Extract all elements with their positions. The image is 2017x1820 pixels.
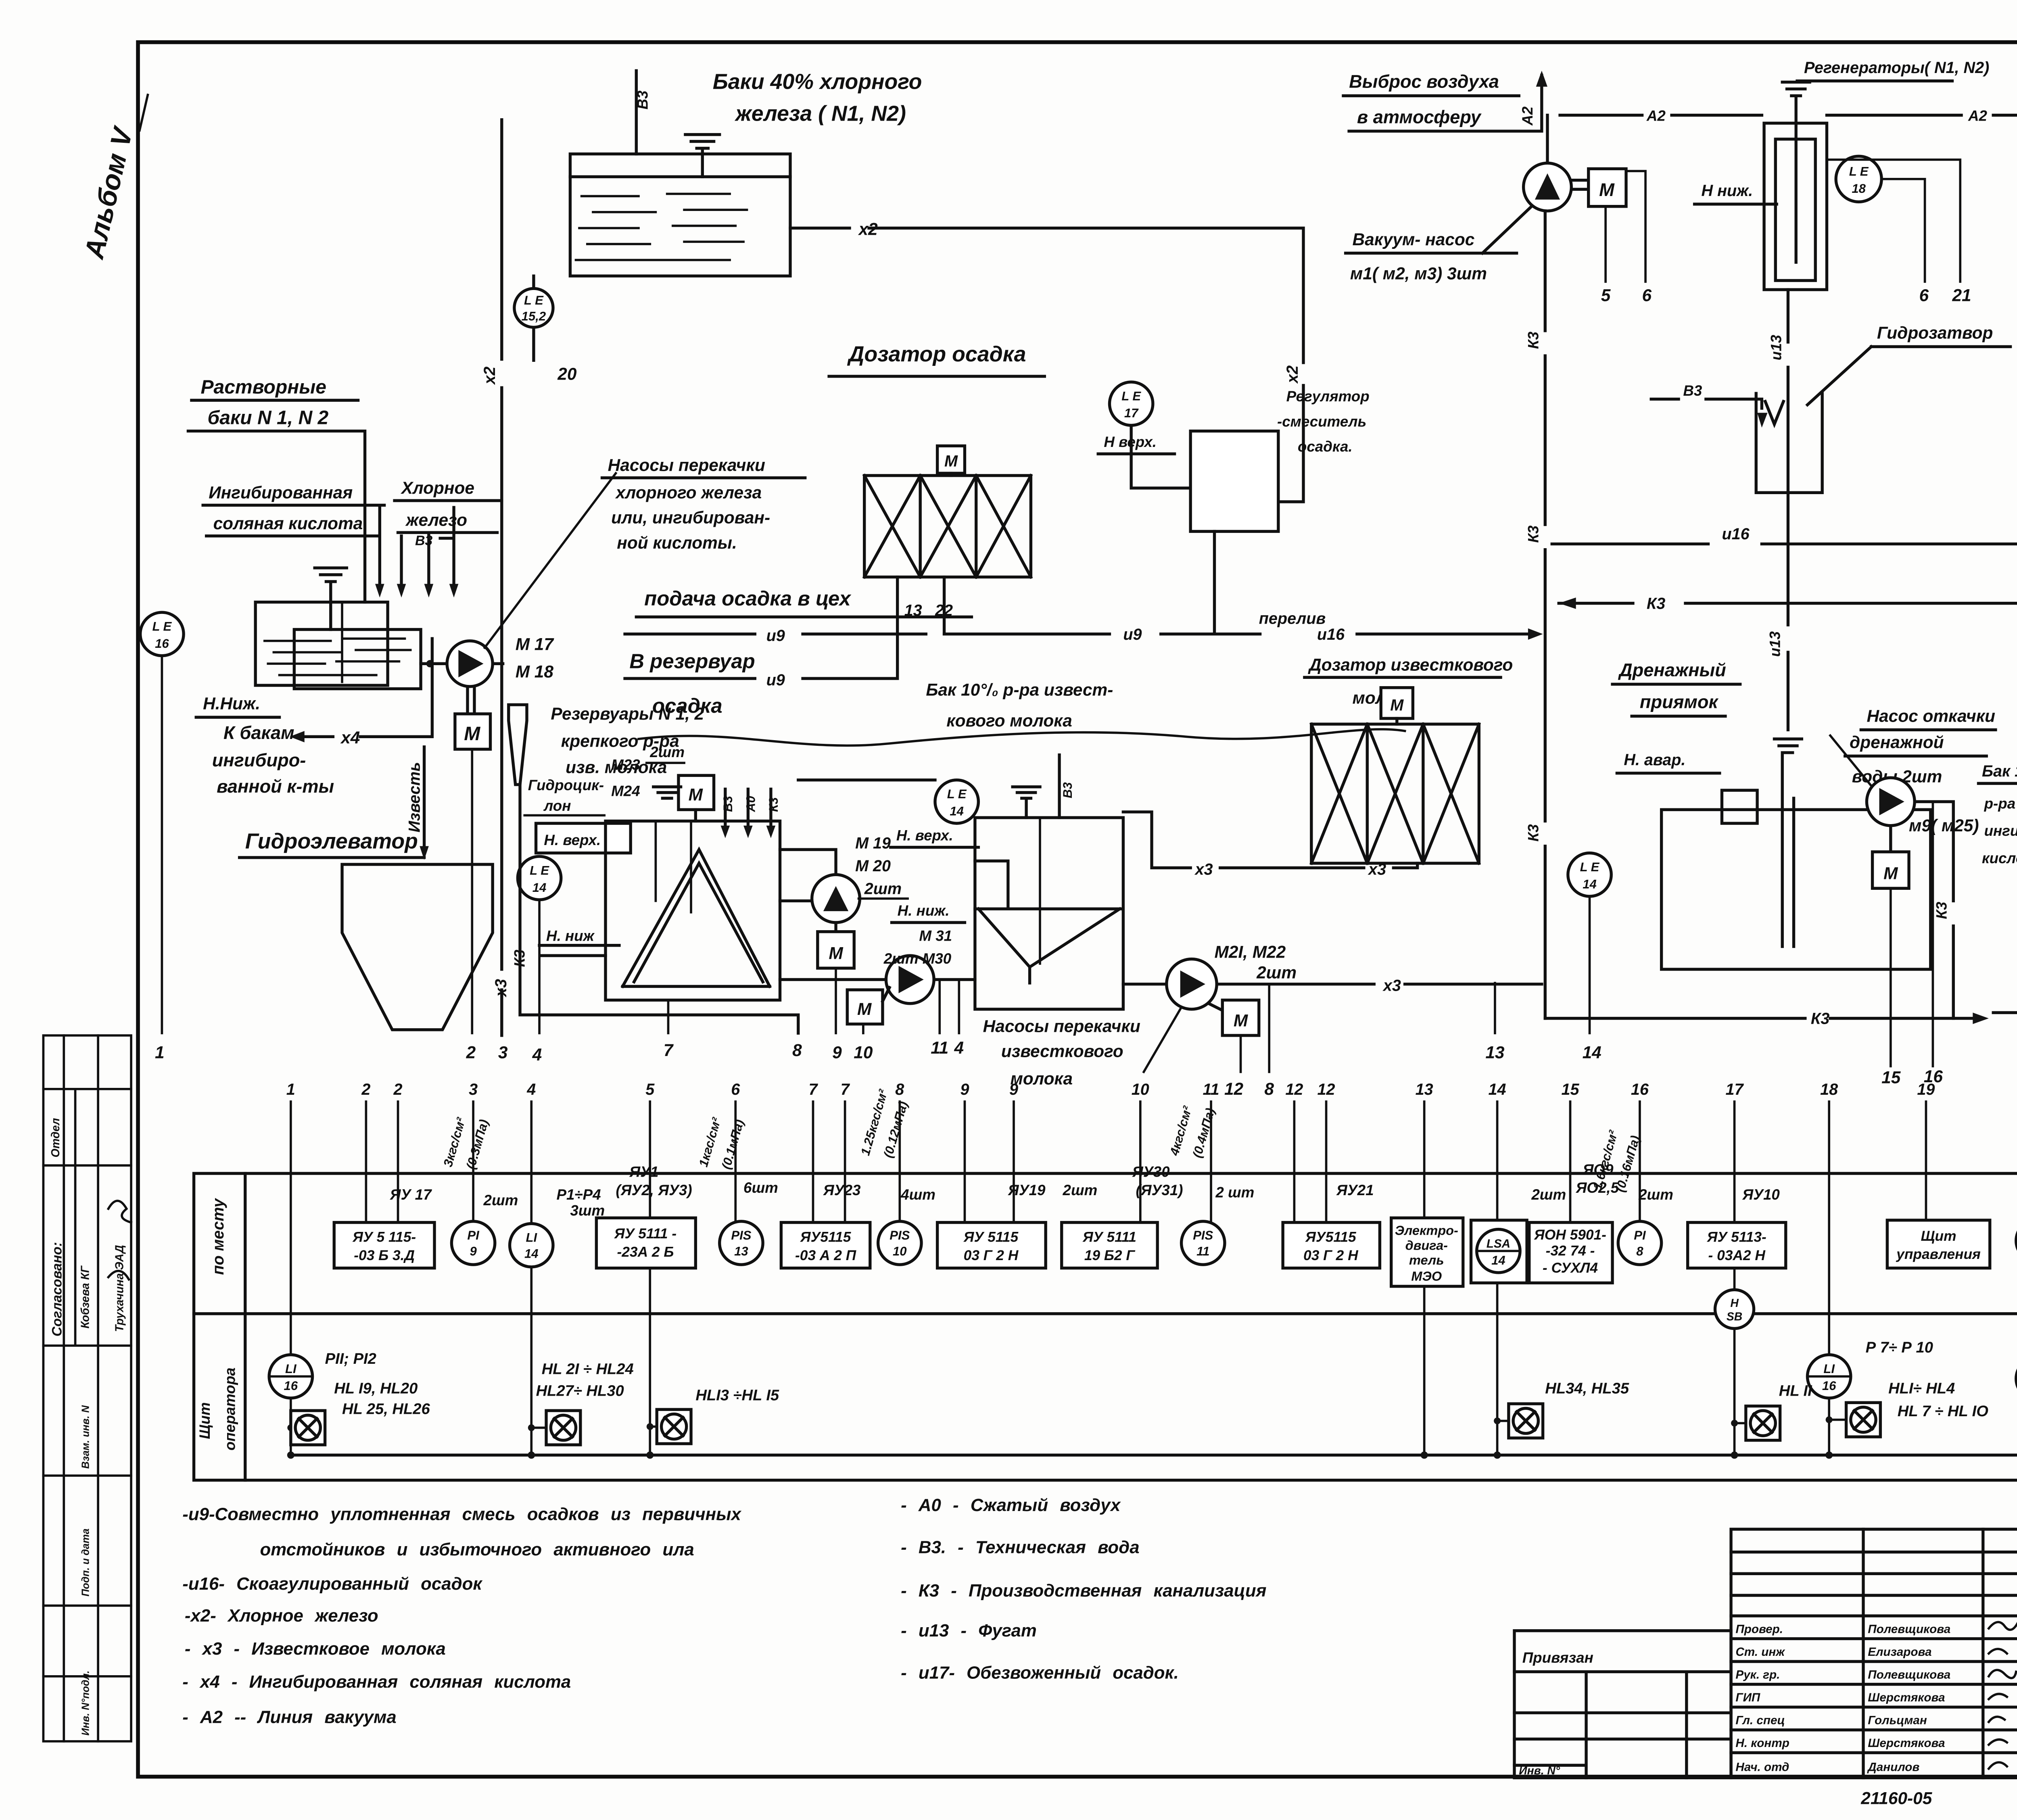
svg-text:-03 Б 3.Д: -03 Б 3.Д	[354, 1248, 415, 1263]
svg-text:ингибиро-: ингибиро-	[212, 750, 306, 770]
svg-text:двига-: двига-	[1405, 1238, 1448, 1252]
svg-text:К3: К3	[1647, 595, 1665, 613]
svg-text:2шт: 2шт	[649, 744, 685, 760]
svg-text:отстойников и избыточного а: отстойников и избыточного активного ила	[260, 1540, 694, 1559]
svg-text:1: 1	[155, 1043, 165, 1062]
svg-text:ванной к-ты: ванной к-ты	[217, 776, 334, 797]
svg-text:3: 3	[498, 1043, 508, 1062]
svg-text:(ЯУ31): (ЯУ31)	[1136, 1182, 1183, 1198]
svg-text:и9: и9	[766, 671, 785, 689]
svg-text:ЯУ5115: ЯУ5115	[1305, 1229, 1357, 1245]
svg-text:15,2: 15,2	[522, 309, 546, 323]
svg-text:М 17: М 17	[516, 634, 555, 653]
svg-text:6: 6	[1919, 286, 1929, 305]
svg-text:2шт: 2шт	[483, 1192, 518, 1208]
svg-text:м1( м2, м3) 3шт: м1( м2, м3) 3шт	[1350, 264, 1487, 283]
svg-text:2шт: 2шт	[1531, 1186, 1566, 1203]
svg-text:ЯУ19: ЯУ19	[1008, 1182, 1046, 1198]
svg-text:12: 12	[1224, 1079, 1244, 1098]
svg-text:8: 8	[895, 1081, 904, 1098]
svg-text:х2: х2	[481, 367, 499, 385]
svg-text:ной кислоты.: ной кислоты.	[617, 533, 737, 552]
svg-text:Гольцман: Гольцман	[1868, 1714, 1927, 1727]
svg-text:7: 7	[841, 1081, 850, 1098]
svg-text:и16: и16	[1722, 525, 1750, 543]
svg-text:10: 10	[854, 1043, 873, 1062]
svg-text:-23А 2 Б: -23А 2 Б	[617, 1244, 674, 1260]
svg-text:LI: LI	[526, 1231, 537, 1245]
svg-text:19 Б2 Г: 19 Б2 Г	[1084, 1248, 1136, 1263]
svg-text:А2: А2	[1519, 106, 1536, 126]
svg-text:2шт: 2шт	[1638, 1186, 1673, 1203]
svg-text:L E: L E	[524, 293, 544, 307]
svg-text:х2: х2	[1284, 365, 1301, 384]
svg-text:-03 А 2 П: -03 А 2 П	[795, 1248, 857, 1263]
svg-text:7: 7	[808, 1081, 818, 1098]
svg-text:16: 16	[284, 1379, 298, 1393]
svg-text:Н. авар.: Н. авар.	[1624, 751, 1685, 769]
svg-text:К3: К3	[1525, 525, 1541, 543]
svg-text:2 шт: 2 шт	[1215, 1184, 1254, 1200]
svg-text:17: 17	[1124, 406, 1139, 420]
svg-text:-32 74 -: -32 74 -	[1546, 1243, 1595, 1259]
svg-text:HL27÷ HL30: HL27÷ HL30	[536, 1382, 624, 1399]
svg-text:03 Г 2 Н: 03 Г 2 Н	[1303, 1248, 1359, 1263]
svg-text:4: 4	[532, 1045, 542, 1064]
svg-text:Бак 10°/₀ р-ра извест-: Бак 10°/₀ р-ра извест-	[926, 680, 1113, 699]
svg-text:Ингибированная: Ингибированная	[209, 483, 353, 502]
svg-text:железа ( N1, N2): железа ( N1, N2)	[734, 102, 906, 126]
svg-text:р-ра: р-ра	[1984, 795, 2016, 812]
svg-text:5: 5	[1601, 286, 1611, 305]
svg-text:ЯУ 5111 -: ЯУ 5111 -	[614, 1226, 677, 1242]
svg-text:и9: и9	[1123, 626, 1142, 643]
svg-text:13: 13	[904, 602, 922, 620]
svg-text:4: 4	[954, 1038, 964, 1057]
svg-text:8: 8	[1264, 1079, 1274, 1098]
svg-text:М 20: М 20	[855, 857, 891, 875]
svg-text:Электро-: Электро-	[1395, 1223, 1458, 1238]
svg-text:Н ниж.: Н ниж.	[1702, 182, 1753, 200]
svg-text:Резервуары N 1, 2: Резервуары N 1, 2	[551, 704, 704, 723]
svg-text:известкового: известкового	[1001, 1042, 1123, 1061]
svg-text:МЭО: МЭО	[1411, 1269, 1442, 1284]
svg-text:- А2 -- Линия вакуума: - А2 -- Линия вакуума	[182, 1707, 397, 1727]
svg-text:14: 14	[1583, 1043, 1601, 1062]
svg-text:SВ: SВ	[1727, 1310, 1742, 1323]
svg-text:Насос откачки: Насос откачки	[1867, 707, 1995, 726]
svg-text:Данилов: Данилов	[1867, 1760, 1919, 1774]
svg-text:х3: х3	[1382, 977, 1401, 995]
svg-text:LI: LI	[1823, 1362, 1835, 1376]
svg-text:2шт: 2шт	[1063, 1182, 1098, 1198]
svg-text:Баки 40% хлорного: Баки 40% хлорного	[713, 70, 922, 94]
svg-text:ЯУ 5111: ЯУ 5111	[1082, 1229, 1136, 1245]
svg-text:3: 3	[469, 1081, 478, 1098]
svg-text:- В3. - Техническая вода: - В3. - Техническая вода	[901, 1537, 1139, 1557]
svg-text:- К3 - Производственная канал: - К3 - Производственная канализация	[901, 1581, 1266, 1601]
svg-text:- СУХЛ4: - СУХЛ4	[1543, 1260, 1598, 1276]
svg-text:лон: лон	[543, 797, 571, 814]
svg-text:РII; РI2: РII; РI2	[325, 1350, 376, 1367]
svg-text:Р 7÷ Р 10: Р 7÷ Р 10	[1866, 1339, 1933, 1356]
svg-text:-и16- Скоагулированный осад: -и16- Скоагулированный осадок	[182, 1574, 482, 1594]
svg-text:А2: А2	[1646, 108, 1666, 124]
svg-text:хлорного железа: хлорного железа	[615, 483, 762, 502]
svg-text:М2I, М22: М2I, М22	[1215, 943, 1286, 962]
svg-text:HL I9, HL20: HL I9, HL20	[334, 1380, 418, 1397]
svg-text:Подп. и дата: Подп. и дата	[80, 1528, 91, 1596]
svg-text:Привязан: Привязан	[1522, 1649, 1593, 1666]
svg-text:4: 4	[526, 1081, 536, 1098]
svg-text:А0: А0	[743, 796, 758, 812]
svg-text:- х3 - Известковое молока: - х3 - Известковое молока	[185, 1639, 446, 1659]
svg-text:ЯУ 17: ЯУ 17	[390, 1186, 432, 1203]
svg-text:6: 6	[731, 1081, 740, 1098]
svg-text:2: 2	[466, 1043, 476, 1062]
svg-text:12: 12	[1318, 1081, 1335, 1098]
svg-text:(ЯУ2, ЯУ3): (ЯУ2, ЯУ3)	[616, 1182, 692, 1198]
svg-text:Вакуум- насос: Вакуум- насос	[1353, 230, 1475, 249]
svg-text:Н: Н	[1730, 1296, 1739, 1309]
svg-text:Елизарова: Елизарова	[1868, 1645, 1931, 1659]
svg-text:2шт: 2шт	[1256, 963, 1297, 982]
svg-text:8: 8	[792, 1041, 802, 1060]
svg-text:Р1÷Р4: Р1÷Р4	[556, 1186, 601, 1203]
svg-text:Полевщикова: Полевщикова	[1868, 1622, 1950, 1636]
svg-text:кового молока: кового молока	[946, 711, 1072, 730]
svg-text:HL34, HL35: HL34, HL35	[1545, 1380, 1629, 1397]
svg-text:Бак 10°/₀: Бак 10°/₀	[1982, 762, 2017, 780]
svg-text:Щит: Щит	[196, 1402, 213, 1439]
svg-text:Насосы перекачки: Насосы перекачки	[608, 456, 765, 475]
svg-text:К3: К3	[1811, 1010, 1829, 1028]
svg-text:1: 1	[286, 1081, 295, 1098]
svg-text:РIS: РIS	[731, 1228, 751, 1242]
svg-text:Отдел: Отдел	[49, 1118, 62, 1157]
svg-text:2: 2	[361, 1081, 370, 1098]
svg-text:Трухачина ЭАД: Трухачина ЭАД	[113, 1245, 125, 1332]
svg-text:В3: В3	[415, 533, 432, 548]
svg-text:Дозатор известкового: Дозатор известкового	[1308, 655, 1513, 674]
svg-text:ЯОН 5901-: ЯОН 5901-	[1534, 1227, 1606, 1243]
svg-text:м9( м25): м9( м25)	[1909, 816, 1979, 835]
svg-text:перелив: перелив	[1259, 609, 1326, 627]
svg-text:ЯО2,5: ЯО2,5	[1576, 1179, 1619, 1196]
svg-text:13: 13	[734, 1244, 748, 1259]
svg-text:14: 14	[532, 881, 547, 895]
svg-text:HLI÷ HL4: HLI÷ HL4	[1888, 1380, 1955, 1397]
svg-text:ЯУ1: ЯУ1	[629, 1164, 658, 1180]
svg-text:2шт М30: 2шт М30	[883, 950, 952, 967]
svg-text:ЯУ5115: ЯУ5115	[800, 1229, 852, 1245]
svg-text:К3: К3	[1525, 331, 1541, 349]
svg-text:HL 7 ÷ HL IO: HL 7 ÷ HL IO	[1898, 1403, 1989, 1420]
svg-text:ЯУ21: ЯУ21	[1336, 1182, 1374, 1198]
svg-text:Н. ниж.: Н. ниж.	[898, 902, 950, 919]
svg-text:Н. верх.: Н. верх.	[544, 832, 601, 848]
svg-text:железо: железо	[405, 510, 467, 529]
svg-text:Н. контр: Н. контр	[1735, 1737, 1789, 1750]
svg-text:Гидроцик-: Гидроцик-	[528, 777, 604, 793]
svg-text:Н. верх.: Н. верх.	[896, 827, 953, 844]
svg-text:х4: х4	[340, 728, 360, 747]
svg-text:Дренажный: Дренажный	[1618, 660, 1726, 680]
svg-text:- х4 - Ингибированная соляна: - х4 - Ингибированная соляная кислота	[182, 1672, 571, 1692]
svg-text:ЯУ 5113-: ЯУ 5113-	[1707, 1229, 1766, 1245]
svg-text:9: 9	[832, 1043, 842, 1062]
svg-text:10: 10	[893, 1244, 907, 1259]
svg-text:5: 5	[645, 1081, 655, 1098]
svg-text:03 Г 2 Н: 03 Г 2 Н	[964, 1248, 1019, 1263]
svg-text:М24: М24	[611, 783, 640, 799]
svg-text:тель: тель	[1409, 1253, 1444, 1267]
svg-text:Кобзева КГ: Кобзева КГ	[78, 1265, 91, 1328]
svg-text:управления: управления	[1896, 1246, 1981, 1262]
svg-text:РI: РI	[467, 1228, 480, 1242]
svg-text:- и17- Обезвоженный осадок.: - и17- Обезвоженный осадок.	[901, 1663, 1179, 1682]
svg-text:14: 14	[950, 804, 964, 818]
svg-text:Инв. N°подл.: Инв. N°подл.	[80, 1670, 91, 1735]
svg-text:молока: молока	[1011, 1069, 1073, 1088]
svg-text:L E: L E	[1580, 860, 1600, 874]
svg-text:2: 2	[393, 1081, 403, 1098]
svg-text:- А0 - Сжатый воздух: - А0 - Сжатый воздух	[901, 1495, 1121, 1515]
svg-text:К3: К3	[766, 797, 781, 812]
svg-text:по месту: по месту	[209, 1198, 227, 1275]
svg-text:HL 25, HL26: HL 25, HL26	[342, 1400, 430, 1418]
svg-text:13: 13	[1485, 1043, 1505, 1062]
svg-text:баки N 1, N 2: баки N 1, N 2	[207, 407, 328, 429]
svg-text:Щит: Щит	[1921, 1228, 1956, 1244]
svg-text:оператора: оператора	[221, 1367, 238, 1451]
svg-text:М: М	[944, 452, 958, 470]
svg-text:К3: К3	[1933, 902, 1950, 919]
svg-text:Насосы перекачки: Насосы перекачки	[983, 1016, 1140, 1035]
svg-text:М: М	[1599, 179, 1615, 200]
svg-text:М23: М23	[611, 756, 640, 773]
svg-text:В3: В3	[1061, 782, 1075, 798]
svg-text:К бакам: К бакам	[223, 722, 294, 743]
svg-text:осадка.: осадка.	[1298, 438, 1353, 455]
svg-text:х2: х2	[858, 219, 878, 238]
svg-text:Н. ниж: Н. ниж	[546, 927, 595, 944]
svg-text:М 31: М 31	[919, 927, 952, 944]
svg-text:7: 7	[664, 1041, 674, 1060]
svg-text:соляная кислота: соляная кислота	[213, 514, 363, 533]
svg-text:Шерстякова: Шерстякова	[1868, 1691, 1945, 1704]
svg-text:В резервуар: В резервуар	[629, 650, 755, 673]
svg-text:Инв. N°: Инв. N°	[1519, 1764, 1560, 1777]
svg-text:LSA: LSA	[1487, 1237, 1510, 1250]
svg-text:14: 14	[1583, 877, 1597, 891]
svg-text:6шт: 6шт	[743, 1179, 778, 1196]
svg-text:14: 14	[524, 1246, 539, 1261]
svg-text:и9: и9	[766, 627, 785, 645]
svg-text:ингиб.: ингиб.	[1984, 822, 2017, 839]
svg-text:РI: РI	[1634, 1228, 1646, 1242]
svg-text:А2: А2	[1968, 108, 1988, 124]
svg-text:в атмосферу: в атмосферу	[1357, 106, 1482, 127]
svg-text:К3: К3	[1525, 824, 1541, 842]
svg-text:-х2- Хлорное железо: -х2- Хлорное железо	[185, 1606, 378, 1626]
svg-text:11: 11	[1203, 1081, 1219, 1098]
svg-text:15: 15	[1881, 1068, 1901, 1087]
svg-text:Нач. отд: Нач. отд	[1735, 1760, 1789, 1774]
svg-text:Провер.: Провер.	[1735, 1622, 1783, 1636]
svg-text:14: 14	[1489, 1081, 1506, 1098]
svg-text:Регенераторы( N1, N2): Регенераторы( N1, N2)	[1804, 59, 1989, 77]
svg-text:LI: LI	[285, 1362, 297, 1376]
svg-text:М: М	[689, 785, 704, 804]
svg-text:Ст. инж: Ст. инж	[1735, 1645, 1785, 1659]
svg-text:Взам. инв. N: Взам. инв. N	[80, 1405, 91, 1469]
svg-text:21: 21	[1952, 286, 1971, 305]
svg-text:11: 11	[931, 1038, 948, 1057]
svg-text:10: 10	[1132, 1081, 1149, 1098]
svg-text:- 03А2 Н: - 03А2 Н	[1708, 1248, 1766, 1263]
svg-text:Шерстякова: Шерстякова	[1868, 1737, 1945, 1750]
svg-text:4шт: 4шт	[900, 1186, 935, 1203]
svg-text:х3: х3	[492, 979, 510, 998]
svg-text:ЯУ10: ЯУ10	[1742, 1186, 1780, 1203]
svg-text:9: 9	[1009, 1081, 1018, 1098]
svg-text:- и13 - Фугат: - и13 - Фугат	[901, 1621, 1037, 1641]
svg-text:L E: L E	[530, 863, 549, 877]
svg-text:Рук. гр.: Рук. гр.	[1735, 1668, 1780, 1681]
svg-text:18: 18	[1820, 1081, 1838, 1098]
svg-text:21160-05: 21160-05	[1860, 1789, 1932, 1807]
svg-text:дренажной: дренажной	[1850, 733, 1944, 752]
svg-text:Н.Ниж.: Н.Ниж.	[203, 694, 260, 713]
svg-text:кислоты: кислоты	[1982, 850, 2017, 866]
svg-text:Растворные: Растворные	[201, 376, 326, 398]
svg-text:М: М	[1390, 696, 1404, 714]
svg-text:ЯУ 5 115-: ЯУ 5 115-	[352, 1229, 416, 1245]
svg-text:Гидрозатвор: Гидрозатвор	[1877, 324, 1993, 342]
svg-text:L E: L E	[1121, 389, 1141, 403]
svg-text:РIS: РIS	[889, 1228, 910, 1242]
svg-text:HL 2I ÷ HL24: HL 2I ÷ HL24	[542, 1361, 634, 1378]
svg-text:М: М	[1883, 864, 1898, 883]
svg-text:х3: х3	[1194, 860, 1213, 878]
svg-text:или, ингибирован-: или, ингибирован-	[611, 508, 770, 527]
svg-text:12: 12	[1285, 1081, 1303, 1098]
svg-text:Гидроэлеватор: Гидроэлеватор	[245, 829, 418, 853]
svg-text:М: М	[857, 1000, 872, 1019]
svg-text:подача осадка в цех: подача осадка в цех	[644, 587, 852, 610]
svg-text:9: 9	[470, 1244, 477, 1259]
svg-text:приямок: приямок	[1640, 692, 1719, 712]
svg-text:L E: L E	[1849, 164, 1869, 178]
svg-text:-смеситель: -смеситель	[1277, 413, 1366, 430]
svg-text:ЯО9: ЯО9	[1583, 1161, 1614, 1178]
svg-text:17: 17	[1726, 1081, 1744, 1098]
svg-text:19: 19	[1917, 1081, 1935, 1098]
svg-text:Гл. спец: Гл. спец	[1735, 1714, 1785, 1727]
svg-text:16: 16	[1631, 1081, 1649, 1098]
svg-text:L E: L E	[947, 787, 967, 801]
svg-text:РIS: РIS	[1193, 1228, 1213, 1242]
svg-text:В3: В3	[1683, 382, 1702, 399]
svg-text:Хлорное: Хлорное	[401, 478, 474, 497]
svg-text:Известь: Известь	[405, 762, 423, 833]
svg-text:ГИП: ГИП	[1735, 1691, 1760, 1704]
svg-text:L E: L E	[152, 619, 172, 633]
svg-text:М: М	[1234, 1011, 1249, 1030]
svg-text:и13: и13	[1767, 631, 1783, 657]
svg-text:М 19: М 19	[855, 834, 891, 852]
svg-text:ЯУ 5115: ЯУ 5115	[963, 1229, 1019, 1245]
svg-text:2шт: 2шт	[864, 880, 902, 897]
svg-text:Регулятор: Регулятор	[1286, 388, 1370, 405]
svg-text:Выброс воздуха: Выброс воздуха	[1349, 71, 1499, 92]
svg-text:8: 8	[1636, 1244, 1643, 1259]
svg-text:В3: В3	[635, 90, 651, 110]
svg-text:3шт: 3шт	[570, 1202, 605, 1219]
svg-text:и16: и16	[1317, 626, 1345, 643]
svg-text:-и9-Совместно уплотненная см: -и9-Совместно уплотненная смесь осадков …	[182, 1504, 741, 1524]
svg-text:9: 9	[960, 1081, 969, 1098]
svg-text:6: 6	[1642, 286, 1652, 305]
svg-text:HL II: HL II	[1779, 1382, 1812, 1399]
svg-text:14: 14	[1491, 1253, 1505, 1267]
svg-text:16: 16	[1822, 1379, 1836, 1393]
svg-text:18: 18	[1852, 182, 1866, 196]
svg-text:Полевщикова: Полевщикова	[1868, 1668, 1950, 1681]
svg-text:22: 22	[935, 602, 953, 620]
svg-text:и13: и13	[1768, 334, 1784, 360]
svg-text:М 18: М 18	[516, 662, 554, 681]
svg-text:20: 20	[557, 364, 577, 383]
svg-text:Согласовано:: Согласовано:	[50, 1242, 65, 1336]
svg-text:К3: К3	[511, 950, 528, 967]
svg-text:ЯУ30: ЯУ30	[1132, 1164, 1170, 1180]
svg-text:16: 16	[155, 637, 169, 651]
svg-text:М: М	[464, 723, 480, 745]
svg-text:15: 15	[1561, 1081, 1579, 1098]
svg-text:ЯУ23: ЯУ23	[823, 1182, 861, 1198]
svg-text:В3: В3	[721, 796, 735, 812]
svg-text:М: М	[829, 944, 844, 963]
svg-text:Дозатор осадка: Дозатор осадка	[847, 342, 1026, 366]
svg-text:13: 13	[1416, 1081, 1433, 1098]
svg-text:11: 11	[1196, 1244, 1209, 1259]
svg-text:HLI3 ÷HL I5: HLI3 ÷HL I5	[695, 1387, 779, 1404]
